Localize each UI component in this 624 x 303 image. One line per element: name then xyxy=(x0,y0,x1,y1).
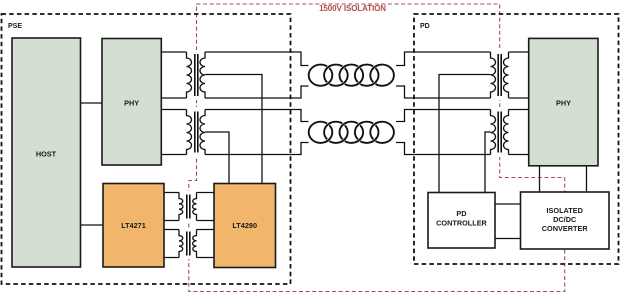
svg-text:PSE: PSE xyxy=(8,23,22,30)
svg-text:PD: PD xyxy=(456,209,466,218)
svg-text:CONVERTER: CONVERTER xyxy=(542,224,589,233)
svg-text:ISOLATED: ISOLATED xyxy=(547,206,583,215)
svg-text:PD: PD xyxy=(420,23,430,30)
svg-text:CONTROLLER: CONTROLLER xyxy=(436,219,487,228)
svg-text:HOST: HOST xyxy=(36,150,57,159)
svg-text:LT4271: LT4271 xyxy=(121,221,146,230)
svg-text:LT4290: LT4290 xyxy=(232,221,257,230)
svg-text:DC/DC: DC/DC xyxy=(553,215,577,224)
svg-text:PHY: PHY xyxy=(124,99,139,108)
svg-text:1500V ISOLATION: 1500V ISOLATION xyxy=(319,4,386,13)
svg-text:PHY: PHY xyxy=(556,99,571,108)
